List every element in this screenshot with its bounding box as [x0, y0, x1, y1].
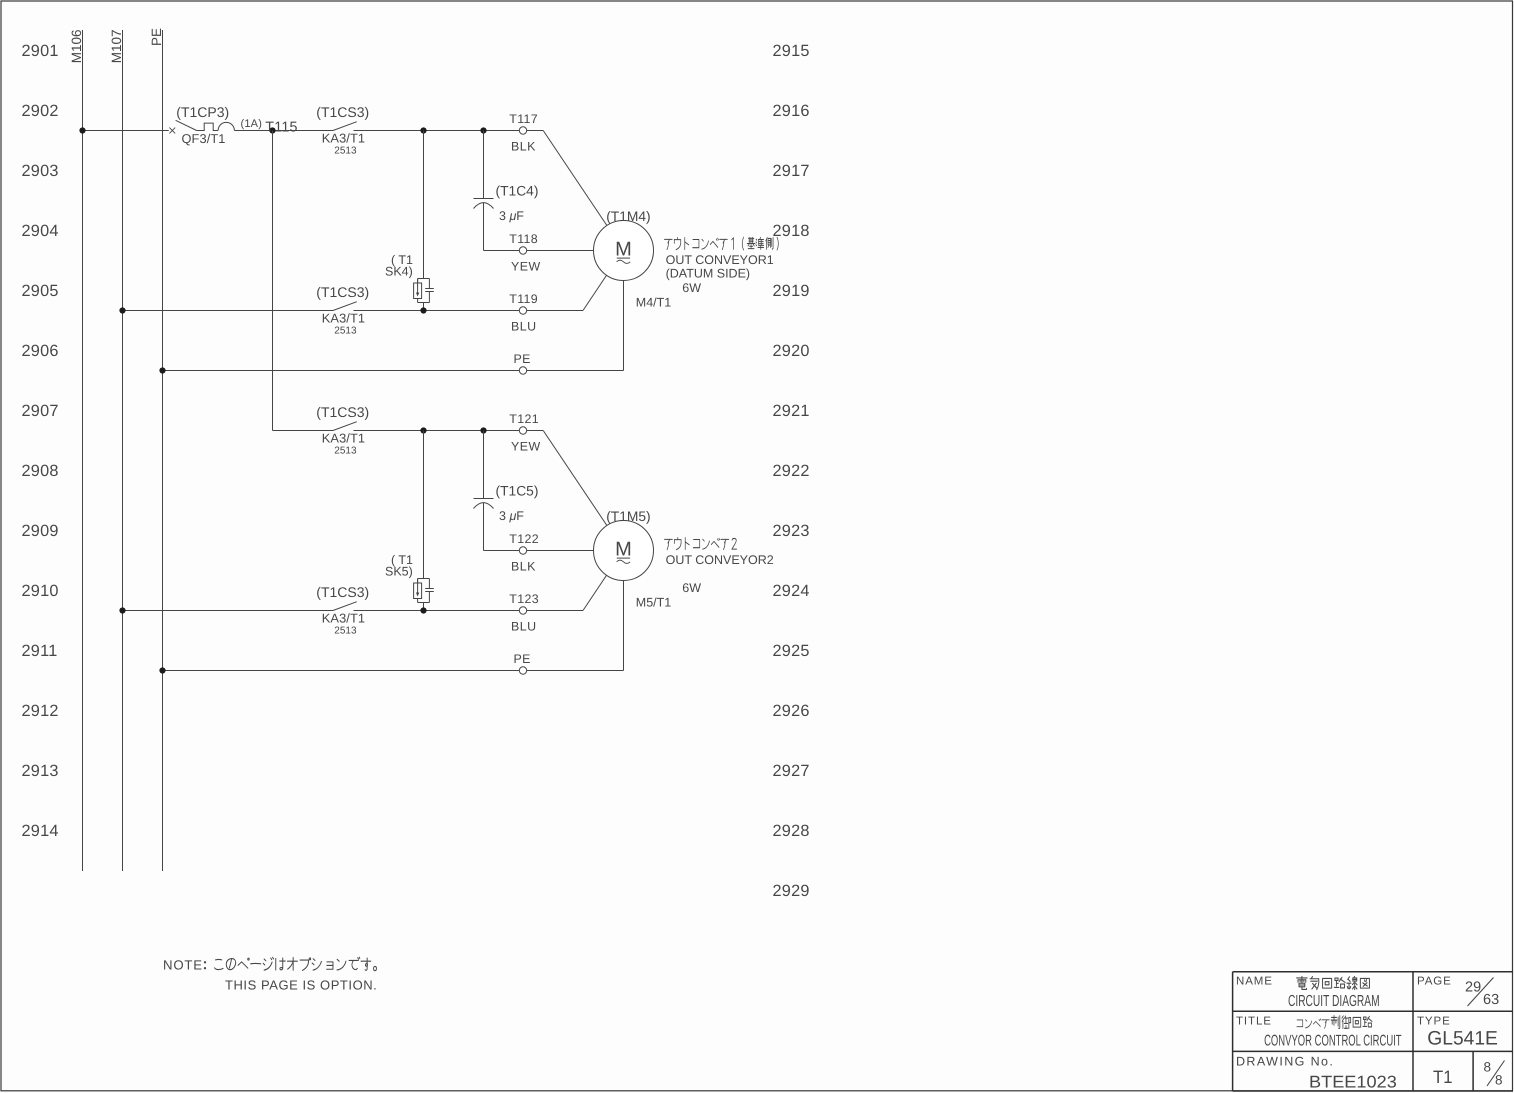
- node: junction dot on M107 at row 2905: [119, 307, 125, 313]
- svg-text:2920: 2920: [773, 342, 810, 360]
- terminal T121 YEW: [509, 412, 540, 453]
- wire: branch corner into contact 3 row 2907: [273, 430, 334, 432]
- svg-text:M5/T1: M5/T1: [636, 596, 671, 610]
- wire: M106 to breaker QF3/T1: [83, 130, 169, 132]
- svg-text:T122: T122: [509, 532, 539, 546]
- terminal T122 BLK: [509, 532, 539, 573]
- svg-text:T123: T123: [509, 592, 539, 606]
- svg-text:2910: 2910: [22, 582, 59, 600]
- svg-text:2912: 2912: [22, 702, 59, 720]
- svg-text:2513: 2513: [334, 446, 357, 457]
- svg-text:2921: 2921: [773, 402, 810, 420]
- contact KA3/T1 (T1CS3) 2513 - contact 1: [316, 104, 369, 157]
- contact KA3/T1 (T1CS3) 2513 - contact 4: [316, 584, 369, 637]
- svg-text:SK4): SK4): [385, 265, 413, 279]
- title block: TYPE cell GL541E: [1417, 1015, 1498, 1049]
- svg-text:SK5): SK5): [385, 565, 413, 579]
- wire: diagonal T117 to motor M4: [543, 131, 607, 226]
- wire: diagonal T123 to motor M5: [583, 575, 607, 611]
- node: junction dot on PE bus at row 2906: [159, 367, 165, 373]
- svg-text:2907: 2907: [22, 402, 59, 420]
- node: junction at SK4 branch top: [420, 127, 426, 133]
- node: junction at C4 branch top: [480, 127, 486, 133]
- svg-text:GL541E: GL541E: [1427, 1027, 1498, 1049]
- svg-text:KA3/T1: KA3/T1: [322, 310, 365, 325]
- svg-text:NAME: NAME: [1236, 975, 1273, 987]
- node T115: [265, 120, 297, 136]
- svg-text:2916: 2916: [773, 102, 810, 120]
- svg-text:2905: 2905: [22, 282, 59, 300]
- svg-text:2903: 2903: [22, 162, 59, 180]
- svg-text:2929: 2929: [773, 882, 810, 900]
- svg-text:2927: 2927: [773, 762, 810, 780]
- wire: PE row 2906: [163, 370, 624, 372]
- svg-text:2915: 2915: [773, 42, 810, 60]
- svg-text:3 μF: 3 μF: [499, 509, 524, 523]
- wire: row 2905 from M107 to contact 2: [123, 310, 334, 312]
- svg-text:(T1CS3): (T1CS3): [316, 284, 369, 300]
- svg-text:2922: 2922: [773, 462, 810, 480]
- terminal T123 BLU: [509, 592, 539, 633]
- node: junction at SK4 bottom: [420, 307, 426, 313]
- wire: motor M4 bottom to PE row 2906: [623, 281, 625, 371]
- svg-text:(T1CS3): (T1CS3): [316, 584, 369, 600]
- svg-text:OUT CONVEYOR1: OUT CONVEYOR1: [666, 253, 774, 267]
- svg-text:KA3/T1: KA3/T1: [322, 430, 365, 445]
- title block: DRAWING No. cell BTEE1023: [1236, 1054, 1397, 1091]
- svg-text:PAGE: PAGE: [1417, 975, 1452, 987]
- wire: diagonal T121 to motor M5: [543, 431, 607, 526]
- motor M5 (T1M5): [594, 509, 654, 580]
- wire: T118 row to motor: [484, 250, 594, 252]
- svg-text:M: M: [615, 239, 632, 261]
- svg-text:T119: T119: [509, 292, 538, 306]
- node: junction at C5 branch top: [480, 427, 486, 433]
- note text japanese: [163, 957, 376, 972]
- svg-text:2928: 2928: [773, 822, 810, 840]
- contact KA3/T1 (T1CS3) 2513 - contact 2: [316, 284, 369, 337]
- svg-text:2913: 2913: [22, 762, 59, 780]
- wire: PE row 2911: [163, 670, 624, 672]
- terminal T119 BLU: [509, 292, 538, 333]
- svg-text:2918: 2918: [773, 222, 810, 240]
- wire: vertical branch to SK5: [423, 431, 425, 579]
- svg-text:2923: 2923: [773, 522, 810, 540]
- thermal protector SK4 (T1): [385, 253, 434, 311]
- row number column left 2901-2914: [22, 42, 59, 840]
- svg-text:CONVYOR CONTROL CIRCUIT: CONVYOR CONTROL CIRCUIT: [1264, 1032, 1402, 1049]
- svg-text:BLU: BLU: [511, 619, 537, 633]
- wire: motor M5 bottom to PE row 2911: [623, 581, 625, 671]
- svg-text:2917: 2917: [773, 162, 810, 180]
- svg-text:2908: 2908: [22, 462, 59, 480]
- wire: contact 3 to T121 diagonal start: [354, 430, 544, 432]
- node: junction dot on M107 at row 2910: [119, 607, 125, 613]
- terminal T118 YEW: [509, 232, 540, 273]
- svg-text:2513: 2513: [334, 326, 357, 337]
- svg-text:2906: 2906: [22, 342, 59, 360]
- svg-text:M4/T1: M4/T1: [636, 296, 671, 310]
- svg-text:KA3/T1: KA3/T1: [322, 610, 365, 625]
- svg-text:(T1CS3): (T1CS3): [316, 104, 369, 120]
- svg-text:TYPE: TYPE: [1417, 1015, 1451, 1027]
- svg-text:M: M: [615, 539, 632, 561]
- capacitor C4 (T1C4) 3uF: [474, 131, 539, 251]
- wire: contact 1 to T117 diagonal start: [354, 130, 544, 132]
- thermal protector SK5 (T1): [385, 553, 434, 611]
- svg-text:2513: 2513: [334, 146, 357, 157]
- terminal T117 BLK: [509, 112, 538, 153]
- title block table: [1233, 972, 1513, 1091]
- svg-text:BLK: BLK: [511, 139, 536, 153]
- svg-text:2919: 2919: [773, 282, 810, 300]
- title block: PAGE cell 29/63: [1417, 975, 1499, 1008]
- svg-text:2926: 2926: [773, 702, 810, 720]
- svg-text:(T1C5): (T1C5): [496, 483, 539, 498]
- svg-text:(1A): (1A): [241, 118, 263, 130]
- svg-text:8: 8: [1484, 1060, 1492, 1075]
- svg-text:63: 63: [1483, 992, 1499, 1008]
- svg-text:THIS PAGE IS OPTION.: THIS PAGE IS OPTION.: [225, 977, 377, 992]
- svg-text:M107: M107: [109, 29, 124, 63]
- svg-text:(T1CS3): (T1CS3): [316, 404, 369, 420]
- svg-text:YEW: YEW: [511, 259, 541, 273]
- svg-text:2901: 2901: [22, 42, 59, 60]
- svg-text:(DATUM SIDE): (DATUM SIDE): [666, 267, 751, 281]
- bus line M106: [69, 29, 84, 871]
- title block: sheet number 8/8: [1484, 1060, 1505, 1088]
- svg-text:6W: 6W: [682, 281, 701, 295]
- wire: contact 4 to T123 bend: [354, 610, 584, 612]
- svg-text:2513: 2513: [334, 626, 357, 637]
- svg-text:2911: 2911: [22, 642, 58, 660]
- wire: T122 row to motor: [484, 550, 594, 552]
- svg-text:TITLE: TITLE: [1236, 1015, 1272, 1027]
- svg-text:NOTE: NOTE: [163, 958, 203, 973]
- node: junction at SK5 branch top: [420, 427, 426, 433]
- svg-text:OUT CONVEYOR2: OUT CONVEYOR2: [666, 553, 774, 567]
- svg-text:8: 8: [1495, 1072, 1503, 1087]
- bus line PE: [149, 28, 164, 871]
- svg-text:M106: M106: [69, 29, 84, 63]
- wire: diagonal T119 to motor M4: [583, 275, 607, 311]
- svg-text:T1: T1: [1433, 1067, 1453, 1087]
- circuit breaker QF3/T1 (T1CP3) (1A): [169, 104, 262, 146]
- wire: breaker to contact 1: [234, 130, 333, 132]
- bus line M107: [109, 29, 124, 871]
- svg-text:(T1M5): (T1M5): [606, 509, 650, 524]
- svg-text:2909: 2909: [22, 522, 59, 540]
- svg-text:3 μF: 3 μF: [499, 209, 524, 223]
- note text english: [225, 977, 377, 992]
- svg-text:(T1CP3): (T1CP3): [176, 104, 229, 120]
- wire: contact 2 to T119 bend: [354, 310, 584, 312]
- wire: vertical branch to SK4: [423, 131, 425, 279]
- svg-text:PE: PE: [149, 28, 164, 46]
- title block: TITLE cell: [1236, 1015, 1402, 1049]
- wire: row 2910 from M107 to contact 4: [123, 610, 334, 612]
- svg-text:KA3/T1: KA3/T1: [322, 130, 365, 145]
- title block: NAME cell: [1236, 975, 1380, 1010]
- contact KA3/T1 (T1CS3) 2513 - contact 3: [316, 404, 369, 457]
- svg-text:DRAWING No.: DRAWING No.: [1236, 1054, 1334, 1068]
- svg-text:PE: PE: [514, 352, 531, 366]
- svg-text:YEW: YEW: [511, 439, 541, 453]
- wire: vertical branch T115 down to circuit 2: [272, 131, 274, 431]
- node: junction at SK5 bottom: [420, 607, 426, 613]
- svg-text:QF3/T1: QF3/T1: [182, 131, 226, 146]
- svg-text:BLK: BLK: [511, 559, 536, 573]
- svg-text:2902: 2902: [22, 102, 59, 120]
- capacitor C5 (T1C5) 3uF: [474, 431, 539, 551]
- row number column right 2915-2929: [773, 42, 810, 900]
- svg-text:2924: 2924: [773, 582, 810, 600]
- svg-text:2925: 2925: [773, 642, 810, 660]
- svg-text:CIRCUIT DIAGRAM: CIRCUIT DIAGRAM: [1288, 993, 1380, 1010]
- svg-text:T118: T118: [509, 232, 538, 246]
- svg-text:T115: T115: [265, 120, 297, 136]
- svg-text:(T1M4): (T1M4): [606, 209, 650, 224]
- svg-text:T117: T117: [509, 112, 538, 126]
- title block: sheet cell T1: [1433, 1067, 1453, 1087]
- svg-text:T121: T121: [509, 412, 539, 426]
- svg-text:PE: PE: [514, 652, 531, 666]
- svg-text:6W: 6W: [682, 581, 701, 595]
- label: out conveyor 2 6W M5/T1: [636, 538, 774, 610]
- svg-text:2904: 2904: [22, 222, 59, 240]
- svg-text:2914: 2914: [22, 822, 59, 840]
- svg-text:(T1C4): (T1C4): [496, 183, 539, 198]
- terminal PE (circuit 1): [514, 352, 531, 374]
- svg-text:BTEE1023: BTEE1023: [1309, 1072, 1397, 1091]
- svg-text:BLU: BLU: [511, 319, 537, 333]
- motor M4 (T1M4): [594, 209, 654, 280]
- terminal PE (circuit 2): [514, 652, 531, 674]
- node: junction dot on M106 at row 2902: [79, 127, 85, 133]
- label: out conveyor 1 (datum side) 6W M4/T1: [636, 237, 779, 309]
- node: junction dot on PE bus at row 2911: [159, 667, 165, 673]
